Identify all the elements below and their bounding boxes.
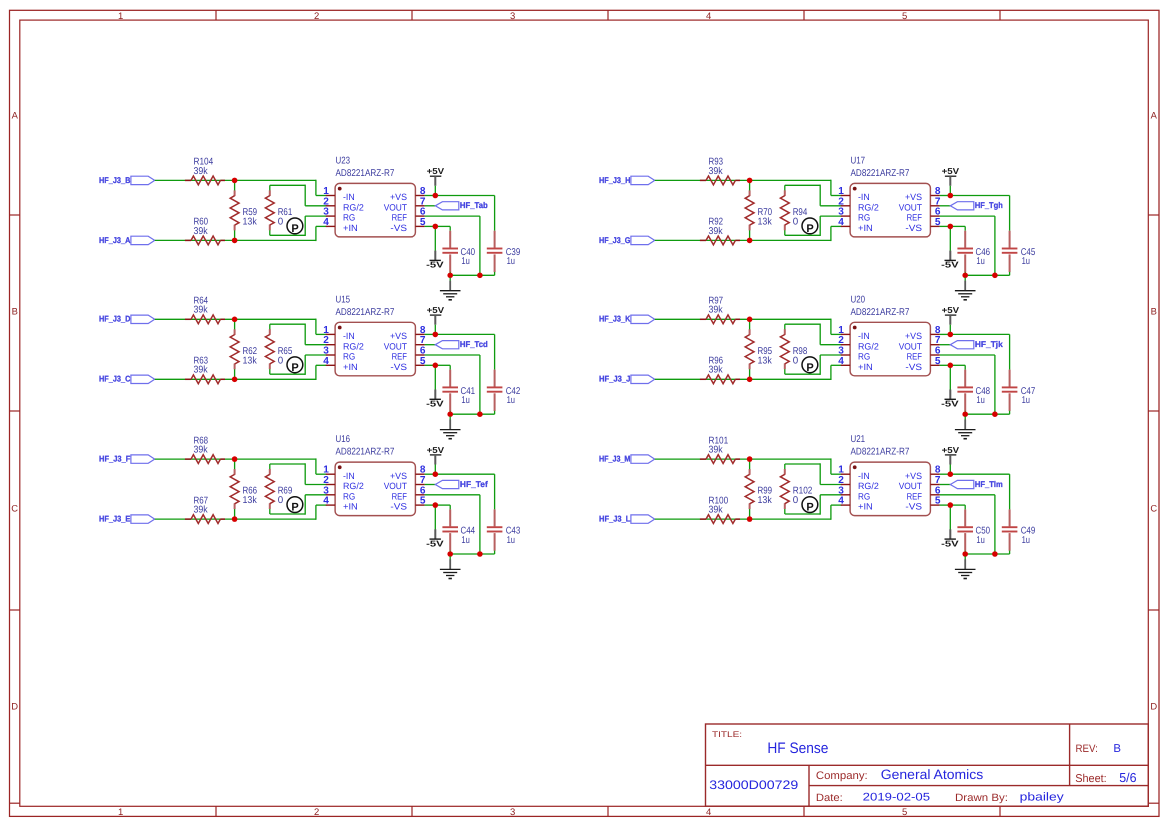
node HF_J3_K input flag	[599, 314, 655, 324]
svg-text:HF_Tjk: HF_Tjk	[975, 339, 1003, 349]
svg-text:AD8221ARZ-R7: AD8221ARZ-R7	[336, 447, 395, 458]
svg-text:+IN: +IN	[343, 362, 358, 372]
node HF_J3_H input flag	[599, 175, 655, 185]
wire pin8 to C45	[950, 196, 1009, 231]
svg-text:39k: 39k	[194, 445, 208, 456]
title label TITLE:	[712, 730, 742, 739]
svg-text:RG: RG	[343, 491, 355, 501]
svg-text:RG: RG	[343, 352, 355, 362]
wire R94 top to pin2	[785, 185, 842, 206]
svg-text:P: P	[291, 223, 298, 235]
wire +5V to pin8 of U16	[425, 465, 436, 475]
junction ground rail at cap	[447, 273, 453, 279]
svg-text:0: 0	[793, 355, 799, 366]
svg-text:RG: RG	[858, 491, 870, 501]
svg-text:0: 0	[278, 355, 284, 366]
node HF_J3_M input flag	[599, 454, 655, 464]
svg-text:RG/2: RG/2	[858, 481, 879, 491]
svg-text:13k: 13k	[758, 355, 772, 366]
svg-text:VOUT: VOUT	[384, 341, 408, 351]
svg-text:39k: 39k	[709, 305, 723, 316]
junction ground rail at cap	[962, 273, 968, 279]
frame column numbers bottom	[118, 807, 907, 818]
resistor R96 39k	[700, 356, 740, 384]
junction node HF_J3_D	[232, 317, 238, 323]
svg-text:1u: 1u	[507, 395, 515, 406]
ground	[955, 417, 976, 439]
capacitor C41 1u	[442, 370, 475, 415]
svg-text:39k: 39k	[709, 166, 723, 177]
svg-text:4: 4	[323, 356, 329, 367]
svg-text:HF_J3_C: HF_J3_C	[99, 374, 130, 384]
date label	[816, 792, 843, 804]
svg-text:+IN: +IN	[858, 502, 873, 512]
svg-text:39k: 39k	[194, 305, 208, 316]
svg-text:B: B	[12, 305, 18, 316]
svg-text:REV:: REV:	[1076, 743, 1098, 755]
rev value B	[1113, 743, 1121, 755]
svg-text:+VS: +VS	[905, 192, 922, 202]
junction +5V pin8	[948, 471, 954, 477]
svg-text:AD8221ARZ-R7: AD8221ARZ-R7	[336, 168, 395, 179]
svg-text:+VS: +VS	[390, 192, 407, 202]
junction pin5 -VS	[433, 363, 439, 369]
test point marker P of R61	[287, 218, 303, 235]
document number 33000D00729	[709, 778, 798, 792]
svg-text:+VS: +VS	[905, 331, 922, 341]
svg-text:HF_Tlm: HF_Tlm	[975, 479, 1003, 489]
svg-text:2: 2	[314, 807, 319, 818]
svg-text:C: C	[11, 502, 18, 513]
svg-text:+VS: +VS	[390, 471, 407, 481]
resistor R69 0	[265, 464, 292, 514]
svg-text:-IN: -IN	[858, 331, 870, 341]
svg-text:1u: 1u	[507, 256, 515, 267]
resistor R97 39k	[700, 296, 740, 324]
company label	[816, 770, 868, 782]
svg-text:P: P	[291, 502, 298, 514]
svg-text:1: 1	[118, 11, 123, 22]
svg-text:+IN: +IN	[343, 502, 358, 512]
node HF_J3_B input flag	[99, 175, 155, 185]
svg-text:U17: U17	[851, 155, 866, 166]
wire +5V to pin8 of U23	[425, 186, 436, 196]
svg-text:0: 0	[793, 495, 799, 506]
svg-text:HF Sense: HF Sense	[767, 740, 828, 757]
svg-text:HF_Tab: HF_Tab	[460, 200, 488, 210]
frame row ticks left	[10, 215, 20, 610]
wire R102 bottom to pin3	[785, 495, 842, 515]
resistor R68 39k	[185, 435, 225, 463]
junction pin5 -VS	[948, 363, 954, 369]
test point marker P of R69	[287, 497, 303, 514]
resistor R101 39k	[700, 435, 740, 463]
svg-text:39k: 39k	[709, 365, 723, 376]
svg-text:1u: 1u	[1022, 535, 1030, 546]
wire pin8 to C47	[950, 334, 1009, 369]
svg-text:REF: REF	[907, 213, 923, 223]
junction node HF_J3_L	[747, 516, 753, 522]
svg-text:1u: 1u	[976, 535, 984, 546]
svg-text:1u: 1u	[461, 256, 469, 267]
svg-text:HF_J3_K: HF_J3_K	[599, 314, 630, 324]
wire pin8 to C49	[950, 474, 1009, 509]
svg-text:HF_J3_D: HF_J3_D	[99, 314, 130, 324]
wire R69 bottom to pin3	[270, 495, 327, 515]
ground	[955, 556, 976, 578]
resistor R100 39k	[700, 495, 740, 523]
svg-text:-5V: -5V	[426, 538, 444, 548]
test point marker P of R65	[287, 357, 303, 374]
svg-text:VOUT: VOUT	[899, 341, 923, 351]
drawn by label	[955, 792, 1008, 804]
capacitor C40 1u	[442, 231, 475, 276]
frame column ticks bottom	[216, 806, 1000, 816]
resistor R95 13k	[745, 319, 772, 379]
in-amp U17 AD8221ARZ-R7	[838, 155, 941, 237]
svg-text:VOUT: VOUT	[384, 202, 408, 212]
svg-text:RG/2: RG/2	[858, 341, 879, 351]
wire pin6 REF to ground rail	[425, 495, 480, 554]
node HF_J3_G input flag	[599, 235, 655, 245]
junction node HF_J3_M	[747, 456, 753, 462]
junction +5V pin8	[433, 332, 439, 338]
wire pin5 to -5V and C46	[940, 226, 966, 250]
test point marker P of R98	[802, 357, 818, 374]
svg-text:P: P	[806, 502, 813, 514]
svg-text:+5V: +5V	[427, 445, 445, 455]
svg-text:P: P	[806, 362, 813, 374]
svg-text:1u: 1u	[461, 535, 469, 546]
junction +5V pin8	[433, 471, 439, 477]
frame margin end ticks	[10, 802, 1160, 804]
svg-text:+VS: +VS	[905, 471, 922, 481]
svg-text:P: P	[291, 362, 298, 374]
svg-text:P: P	[806, 223, 813, 235]
svg-text:1: 1	[118, 807, 123, 818]
resistor R104 39k	[185, 157, 225, 185]
in-amp U20 AD8221ARZ-R7	[838, 294, 941, 376]
svg-text:HF_J3_G: HF_J3_G	[599, 235, 630, 245]
power -5V	[941, 390, 959, 409]
svg-text:-IN: -IN	[343, 331, 355, 341]
wire pin5 to -5V and C41	[425, 365, 451, 389]
capacitor C42 1u	[487, 370, 521, 415]
title value HF Sense	[767, 740, 828, 757]
sheet label	[1075, 773, 1107, 785]
power -5V	[941, 529, 959, 548]
power -5V	[426, 529, 444, 548]
power -5V	[426, 390, 444, 409]
svg-text:39k: 39k	[194, 226, 208, 237]
resistor R70 13k	[745, 180, 772, 240]
svg-text:1u: 1u	[1022, 395, 1030, 406]
resistor R62 13k	[230, 319, 257, 379]
svg-text:-5V: -5V	[941, 399, 959, 409]
svg-text:4: 4	[323, 217, 329, 228]
svg-text:+5V: +5V	[942, 445, 960, 455]
in-amp U15 AD8221ARZ-R7	[323, 294, 426, 376]
svg-text:1u: 1u	[461, 395, 469, 406]
svg-text:+5V: +5V	[942, 305, 960, 315]
resistor R93 39k	[700, 157, 740, 185]
svg-text:RG: RG	[343, 213, 355, 223]
svg-text:RG/2: RG/2	[343, 341, 364, 351]
svg-text:-IN: -IN	[858, 192, 870, 202]
junction node HF_J3_H	[747, 178, 753, 184]
svg-text:39k: 39k	[194, 365, 208, 376]
junction ground rail at REF	[992, 411, 998, 417]
svg-text:RG: RG	[858, 352, 870, 362]
svg-text:-5V: -5V	[941, 260, 959, 270]
svg-text:HF_J3_A: HF_J3_A	[99, 235, 130, 245]
svg-text:HF_Tef: HF_Tef	[460, 479, 488, 489]
svg-text:4: 4	[838, 356, 844, 367]
svg-text:HF_J3_J: HF_J3_J	[599, 374, 631, 384]
svg-text:RG: RG	[858, 213, 870, 223]
wire net HF_J3_G to pin4	[655, 226, 842, 241]
svg-text:1u: 1u	[1022, 256, 1030, 267]
wire net HF_J3_C to pin4	[155, 365, 327, 380]
svg-text:1u: 1u	[976, 395, 984, 406]
wire +5V to pin8 of U15	[425, 325, 436, 335]
svg-text:HF_J3_B: HF_J3_B	[99, 175, 130, 185]
in-amp U23 AD8221ARZ-R7	[323, 155, 426, 237]
junction +5V pin8	[948, 332, 954, 338]
svg-text:Drawn By:: Drawn By:	[955, 792, 1008, 804]
svg-text:C: C	[1150, 502, 1157, 513]
wire R61 bottom to pin3	[270, 216, 327, 236]
svg-text:+IN: +IN	[343, 223, 358, 233]
junction ground rail at cap	[447, 411, 453, 417]
svg-text:HF_J3_L: HF_J3_L	[599, 514, 630, 524]
svg-text:VOUT: VOUT	[384, 481, 408, 491]
svg-text:TITLE:: TITLE:	[712, 730, 742, 739]
node HF_J3_E input flag	[99, 514, 155, 524]
node HF_J3_J input flag	[599, 374, 655, 384]
node HF_J3_L input flag	[599, 514, 655, 524]
junction ground rail at REF	[992, 273, 998, 279]
svg-text:HF_Tcd: HF_Tcd	[460, 339, 488, 349]
svg-text:1u: 1u	[507, 535, 515, 546]
svg-text:VOUT: VOUT	[899, 202, 923, 212]
company value General Atomics	[881, 767, 984, 782]
svg-text:2: 2	[314, 11, 319, 22]
svg-text:39k: 39k	[709, 445, 723, 456]
svg-text:D: D	[11, 700, 18, 711]
wire pin6 REF to ground rail	[425, 355, 480, 414]
node HF_Tab output flag	[425, 200, 488, 210]
wire pin6 REF to ground rail	[940, 355, 995, 414]
svg-text:HF_Tgh: HF_Tgh	[975, 200, 1003, 210]
svg-text:B: B	[1113, 743, 1121, 755]
test point marker P of R94	[802, 218, 818, 235]
svg-text:-5V: -5V	[426, 260, 444, 270]
node HF_Tef output flag	[425, 479, 488, 489]
wire pin8 to C43	[435, 474, 494, 509]
svg-text:HF_J3_M: HF_J3_M	[599, 454, 630, 464]
power +5V	[942, 166, 960, 186]
junction +5V pin8	[948, 193, 954, 199]
junction node HF_J3_C	[232, 377, 238, 383]
svg-text:+VS: +VS	[390, 331, 407, 341]
junction pin5 -VS	[948, 224, 954, 230]
svg-text:-VS: -VS	[905, 223, 922, 233]
wire net HF_J3_A to pin4	[155, 226, 327, 241]
wire ground rail	[965, 274, 1009, 276]
power +5V	[942, 445, 960, 465]
svg-text:+IN: +IN	[858, 362, 873, 372]
in-amp U21 AD8221ARZ-R7	[838, 434, 941, 515]
resistor R99 13k	[745, 459, 772, 519]
svg-text:REF: REF	[907, 491, 923, 501]
svg-text:+5V: +5V	[427, 305, 445, 315]
svg-text:A: A	[1151, 109, 1158, 120]
svg-text:A: A	[12, 109, 19, 120]
frame row letters left	[11, 109, 18, 711]
svg-text:13k: 13k	[758, 495, 772, 506]
junction ground rail at cap	[447, 551, 453, 557]
svg-text:+5V: +5V	[942, 166, 960, 176]
svg-text:AD8221ARZ-R7: AD8221ARZ-R7	[851, 447, 910, 458]
resistor R60 39k	[185, 217, 225, 245]
svg-text:4: 4	[706, 11, 711, 22]
svg-text:3: 3	[510, 807, 515, 818]
node HF_Tlm output flag	[940, 479, 1003, 489]
junction node HF_J3_F	[232, 456, 238, 462]
drawn by value pbailey	[1020, 791, 1064, 803]
wire R65 top to pin2	[270, 324, 327, 345]
junction +5V pin8	[433, 193, 439, 199]
wire net HF_J3_H to pin1	[655, 180, 842, 196]
capacitor C50 1u	[957, 509, 990, 554]
power +5V	[942, 305, 960, 325]
svg-text:RG/2: RG/2	[343, 481, 364, 491]
svg-text:13k: 13k	[758, 216, 772, 227]
svg-text:-VS: -VS	[390, 362, 407, 372]
wire pin6 REF to ground rail	[940, 495, 995, 554]
junction pin5 -VS	[433, 502, 439, 508]
svg-text:U16: U16	[336, 434, 351, 445]
capacitor C47 1u	[1002, 370, 1036, 415]
wire ground rail	[965, 413, 1009, 415]
svg-text:HF_J3_H: HF_J3_H	[599, 175, 630, 185]
svg-text:-5V: -5V	[426, 399, 444, 409]
junction node HF_J3_E	[232, 516, 238, 522]
svg-text:33000D00729: 33000D00729	[709, 778, 798, 792]
title block outline	[706, 724, 1149, 806]
svg-text:5: 5	[902, 807, 907, 818]
svg-text:AD8221ARZ-R7: AD8221ARZ-R7	[851, 307, 910, 318]
wire net HF_J3_L to pin4	[655, 505, 842, 520]
svg-text:D: D	[1150, 700, 1157, 711]
node HF_J3_C input flag	[99, 374, 155, 384]
svg-text:39k: 39k	[709, 226, 723, 237]
wire ground rail	[965, 553, 1009, 555]
wire net HF_J3_F to pin1	[155, 458, 327, 474]
frame column ticks top	[216, 10, 1000, 20]
resistor R63 39k	[185, 356, 225, 384]
wire pin8 to C42	[435, 334, 494, 369]
junction ground rail at cap	[962, 551, 968, 557]
svg-text:+IN: +IN	[858, 223, 873, 233]
node HF_Tjk output flag	[940, 339, 1004, 349]
wire R94 bottom to pin3	[785, 216, 842, 236]
wire net HF_J3_B to pin1	[155, 180, 327, 196]
svg-text:pbailey: pbailey	[1020, 791, 1064, 803]
resistor R64 39k	[185, 296, 225, 324]
wire ground rail	[450, 553, 494, 555]
svg-text:AD8221ARZ-R7: AD8221ARZ-R7	[336, 307, 395, 318]
ground	[955, 278, 976, 300]
junction node HF_J3_K	[747, 317, 753, 323]
svg-text:39k: 39k	[194, 166, 208, 177]
svg-text:4: 4	[838, 496, 844, 507]
junction pin5 -VS	[948, 502, 954, 508]
sheet value 5/6	[1119, 770, 1136, 785]
svg-text:-5V: -5V	[941, 538, 959, 548]
frame column numbers top	[118, 11, 907, 22]
svg-text:AD8221ARZ-R7: AD8221ARZ-R7	[851, 168, 910, 179]
svg-text:General Atomics: General Atomics	[881, 767, 984, 782]
wire pin6 REF to ground rail	[940, 216, 995, 275]
svg-text:-IN: -IN	[343, 471, 355, 481]
resistor R65 0	[265, 324, 292, 374]
svg-text:HF_J3_E: HF_J3_E	[99, 514, 131, 524]
svg-text:0: 0	[793, 216, 799, 227]
resistor R98 0	[780, 324, 807, 374]
svg-text:REF: REF	[392, 352, 408, 362]
capacitor C46 1u	[957, 231, 990, 276]
resistor R92 39k	[700, 217, 740, 245]
svg-text:REF: REF	[907, 352, 923, 362]
svg-text:39k: 39k	[194, 505, 208, 516]
resistor R59 13k	[230, 180, 257, 240]
power +5V	[427, 305, 445, 325]
in-amp U16 AD8221ARZ-R7	[323, 434, 426, 515]
wire net HF_J3_E to pin4	[155, 505, 327, 520]
frame row ticks right	[1148, 215, 1159, 610]
capacitor C43 1u	[487, 509, 521, 554]
junction ground rail at REF	[477, 273, 483, 279]
resistor R61 0	[265, 185, 292, 235]
svg-text:4: 4	[323, 496, 329, 507]
svg-text:-VS: -VS	[905, 502, 922, 512]
power +5V	[427, 445, 445, 465]
wire +5V to pin8 of U20	[940, 325, 951, 335]
junction ground rail at REF	[477, 411, 483, 417]
capacitor C49 1u	[1002, 509, 1036, 554]
svg-text:U23: U23	[336, 155, 351, 166]
svg-text:1u: 1u	[976, 256, 984, 267]
wire ground rail	[450, 274, 494, 276]
node HF_J3_F input flag	[99, 454, 155, 464]
svg-text:13k: 13k	[243, 495, 257, 506]
svg-text:U15: U15	[336, 294, 351, 305]
svg-text:REF: REF	[392, 213, 408, 223]
svg-text:-VS: -VS	[390, 502, 407, 512]
power -5V	[426, 251, 444, 270]
ground	[440, 417, 461, 439]
wire pin5 to -5V and C50	[940, 505, 966, 529]
svg-text:0: 0	[278, 495, 284, 506]
resistor R67 39k	[185, 495, 225, 523]
svg-text:13k: 13k	[243, 355, 257, 366]
capacitor C48 1u	[957, 370, 990, 415]
rev label	[1076, 743, 1098, 755]
wire ground rail	[450, 413, 494, 415]
junction ground rail at cap	[962, 411, 968, 417]
